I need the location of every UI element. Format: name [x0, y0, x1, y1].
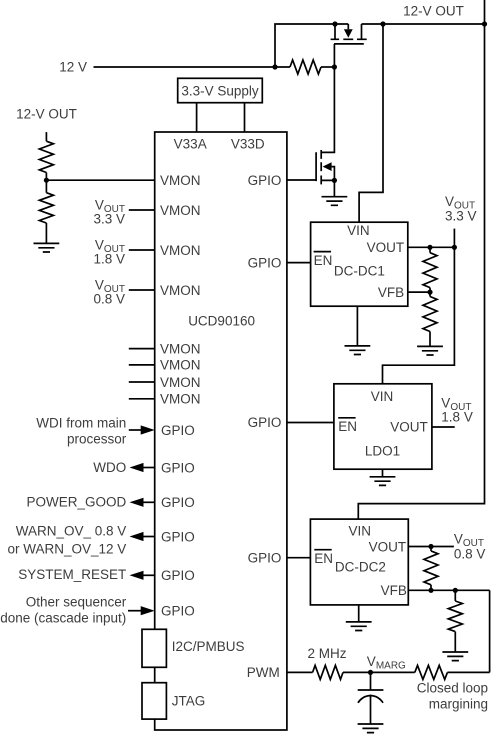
node VFB tap [427, 290, 432, 295]
svg-text:VMON: VMON [160, 243, 201, 258]
pin block JTAG [142, 683, 166, 719]
node DC-DC1 feed tap [380, 21, 385, 26]
svg-text:or WARN_OV_12 V: or WARN_OV_12 V [8, 541, 127, 556]
svg-text:VMON: VMON [160, 375, 201, 390]
svg-text:PWM: PWM [247, 665, 280, 680]
ground DC-DC1 [345, 346, 371, 355]
svg-text:done (cascade input): done (cascade input) [0, 611, 126, 626]
ground Q2 source [322, 197, 348, 206]
svg-text:SYSTEM_RESET: SYSTEM_RESET [18, 567, 126, 582]
wire DC-DC1 VFB [408, 291, 430, 293]
resistor 2 MHz filter [313, 665, 343, 679]
resistor closed-loop margining [415, 665, 448, 679]
node 12V junction [272, 64, 277, 69]
wire junction up to Q1 source rail [275, 24, 348, 67]
svg-text:VMON: VMON [160, 358, 201, 373]
wire DC-DC2 ground pin [358, 605, 360, 622]
svg-text:VIN: VIN [349, 524, 372, 539]
resistor feedback lower DC-DC2 [448, 601, 462, 632]
block 3.3-V Supply [178, 78, 263, 102]
svg-text:VIN: VIN [371, 389, 394, 404]
svg-text:UCD90160: UCD90160 [188, 314, 255, 329]
svg-text:3.3 V: 3.3 V [93, 211, 125, 226]
wire LDO1 VOUT [432, 426, 455, 428]
svg-text:processor: processor [67, 432, 127, 447]
wire DC-DC1 VOUT [408, 246, 455, 248]
svg-text:3.3-V Supply: 3.3-V Supply [181, 84, 259, 99]
svg-text:V33D: V33D [231, 137, 265, 152]
resistor feedback lower DC-DC1 [423, 297, 437, 332]
svg-text:GPIO: GPIO [161, 495, 195, 510]
svg-text:0.8 V: 0.8 V [93, 291, 125, 306]
node Q1 source tab junction [332, 21, 337, 26]
transistor Q1 (P-ch MOSFET high-side switch) [331, 24, 367, 67]
svg-text:Closed loop: Closed loop [417, 681, 488, 696]
U1 UCD90160 main body [155, 132, 287, 730]
U4 DC-DC2 converter [310, 519, 408, 605]
resistor feedback upper DC-DC2 [430, 547, 432, 551]
pin block I2C/PMBUS [142, 629, 166, 667]
svg-text:1.8 V: 1.8 V [93, 251, 125, 266]
svg-text:DC-DC2: DC-DC2 [335, 560, 386, 575]
U2 DC-DC1 converter [311, 222, 408, 306]
wire DC-DC2 VFB [408, 589, 489, 591]
svg-text:WDO: WDO [93, 460, 126, 475]
svg-text:VMON: VMON [160, 341, 201, 356]
svg-text:VOUT: VOUT [390, 420, 428, 435]
svg-text:VOUT: VOUT [367, 240, 405, 255]
svg-text:12-V OUT: 12-V OUT [403, 3, 464, 18]
ground DC-DC1 feedback [417, 346, 443, 355]
ground divider [34, 243, 60, 252]
svg-text:GPIO: GPIO [161, 568, 195, 583]
svg-text:GPIO: GPIO [248, 551, 282, 566]
ground DC-DC2 feedback [442, 652, 468, 661]
wire Q1 drain rail to 12-V OUT [362, 23, 485, 25]
resistor divider lower [39, 193, 53, 223]
ground C1 [358, 724, 384, 733]
wire 12V feed to DC-DC1 VIN [359, 24, 383, 222]
transistor Q2 (N-ch MOSFET gate driver) [287, 150, 335, 184]
svg-text:VFB: VFB [378, 285, 404, 300]
svg-text:GPIO: GPIO [161, 460, 195, 475]
svg-text:POWER_GOOD: POWER_GOOD [27, 495, 127, 510]
svg-text:WDI from main: WDI from main [36, 416, 126, 431]
node VMARG [368, 670, 373, 675]
capacitor C1 VMARG filter [358, 672, 384, 690]
svg-text:VFB: VFB [381, 583, 407, 598]
svg-text:LDO1: LDO1 [365, 444, 400, 459]
node Q1 gate / Q2 drain [332, 64, 337, 69]
svg-text:VMON: VMON [160, 283, 201, 298]
svg-text:EN: EN [314, 551, 333, 566]
svg-text:2 MHz: 2 MHz [308, 646, 347, 661]
node 12-V OUT corner [482, 21, 487, 26]
wire 12-V OUT stub [45, 132, 47, 141]
svg-text:VOUT: VOUT [369, 539, 407, 554]
svg-text:WARN_OV_ 0.8 V: WARN_OV_ 0.8 V [16, 523, 127, 538]
svg-text:EN: EN [338, 419, 357, 434]
wire 3.3V to LDO1 VIN [383, 247, 455, 383]
svg-text:VMON: VMON [160, 173, 201, 188]
svg-text:JTAG: JTAG [172, 694, 206, 709]
svg-text:Other sequencer: Other sequencer [26, 595, 127, 610]
svg-text:GPIO: GPIO [161, 604, 195, 619]
svg-text:GPIO: GPIO [161, 423, 195, 438]
svg-text:12-V OUT: 12-V OUT [16, 107, 77, 122]
svg-text:I2C/PMBUS: I2C/PMBUS [172, 639, 245, 654]
svg-text:1.8 V: 1.8 V [441, 410, 473, 425]
wire supply to V33D [244, 103, 246, 132]
svg-text:V33A: V33A [174, 137, 207, 152]
svg-text:GPIO: GPIO [248, 173, 282, 188]
svg-text:VMON: VMON [160, 203, 201, 218]
svg-text:margining: margining [429, 697, 488, 712]
svg-text:GPIO: GPIO [248, 415, 282, 430]
resistor divider upper (12-V OUT) [39, 141, 53, 172]
svg-text:VIN: VIN [347, 223, 370, 238]
svg-text:VMARG: VMARG [367, 654, 406, 672]
wire 12V to gate pullup junction [94, 66, 291, 68]
wire VFB net down to margining resistor [489, 590, 491, 672]
wire supply to V33A [196, 103, 198, 132]
wire Q1 gate down to Q2 drain [321, 67, 334, 152]
svg-text:3.3 V: 3.3 V [445, 208, 477, 223]
svg-text:GPIO: GPIO [248, 255, 282, 270]
net label VOUT 3.3 V stub [453, 229, 455, 248]
svg-text:EN: EN [314, 253, 333, 268]
wire DC-DC2 VOUT [408, 546, 454, 548]
U3 LDO1 [334, 384, 432, 469]
wire LDO1 ground pin [382, 469, 384, 477]
resistor feedback upper DC-DC1 [429, 247, 431, 252]
svg-text:0.8 V: 0.8 V [454, 546, 486, 561]
wire Q2 source to ground [333, 180, 335, 196]
svg-text:12 V: 12 V [59, 60, 87, 75]
node Q2 source-body junction [332, 178, 337, 183]
ground DC-DC2 [346, 622, 372, 631]
node divider tap [44, 178, 49, 183]
node VOUT 3.3V [452, 245, 457, 250]
svg-text:GPIO: GPIO [161, 529, 195, 544]
wire DC-DC1 ground pin [356, 306, 358, 346]
ground LDO1 [370, 477, 396, 486]
svg-text:DC-DC1: DC-DC1 [334, 264, 385, 279]
svg-text:VMON: VMON [160, 392, 201, 407]
resistor gate pull-up [290, 60, 321, 74]
wire divider tap to VMON [46, 179, 154, 181]
wire 12-V OUT rail down right side to DC-DC2 VIN [358, 0, 484, 519]
